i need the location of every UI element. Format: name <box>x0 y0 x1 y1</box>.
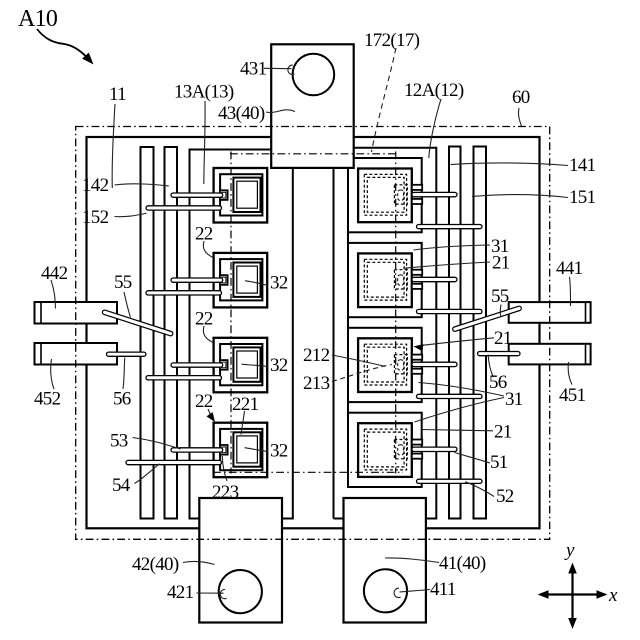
leader 452 <box>51 359 54 389</box>
axis x arrow <box>542 593 603 595</box>
chip 22 unit row3 (pad, frame, chip 221/223, gate pad) <box>214 338 268 393</box>
leader 442 <box>51 280 56 309</box>
leader 221 <box>241 411 245 435</box>
leader 431 <box>264 67 292 69</box>
wire 56 (left horizontal, 452 to outer rail) <box>107 352 146 356</box>
svg-text:54: 54 <box>112 475 131 496</box>
terminal 442 end cap line <box>40 302 42 324</box>
svg-text:213: 213 <box>303 373 330 394</box>
wire 51-type lead row4 (upper, to inner rail) <box>412 447 457 451</box>
svg-text:22: 22 <box>195 391 213 412</box>
leader 152 <box>115 213 147 217</box>
wire lead row3 gate (to inner rail) <box>171 363 223 367</box>
wire 52-type lead row3 (lower, to outer rail) <box>417 394 483 398</box>
hole 421 in terminal 42 <box>219 570 262 613</box>
svg-text:142: 142 <box>82 175 109 196</box>
wire 51-type lead row3 (upper, to inner rail) <box>412 362 457 366</box>
wire lead row3 source (to outer rail) <box>146 376 222 380</box>
svg-text:452: 452 <box>34 389 61 410</box>
svg-text:55: 55 <box>491 286 509 307</box>
figure pointer A10 squiggle arrow <box>37 29 87 58</box>
leader 451 <box>568 362 572 385</box>
sealing resin 60 outline (dash-dot frame) <box>76 127 550 540</box>
svg-text:56: 56 <box>113 389 131 410</box>
svg-text:32: 32 <box>270 355 288 376</box>
wire lead row4 gate (to inner rail) <box>171 448 223 452</box>
svg-text:22: 22 <box>195 224 213 245</box>
leader 22 row2 <box>203 241 212 257</box>
svg-text:13A(13): 13A(13) <box>174 82 234 103</box>
axis y arrow <box>571 567 573 624</box>
svg-text:y: y <box>564 540 575 561</box>
svg-text:55: 55 <box>114 272 132 293</box>
leader 52 <box>465 482 494 497</box>
semiconductor unit 21/31 row4 (seat, pad, hidden chip dashed) <box>348 413 422 487</box>
chip 22 unit row4 (pad, frame, chip 221/223, gate pad) <box>214 423 268 478</box>
conductor plate 13A(13) (left die pad plate) <box>190 150 293 519</box>
svg-text:442: 442 <box>41 263 68 284</box>
svg-text:212: 212 <box>303 345 330 366</box>
conductor strip right edge / seat spine (12A) <box>347 168 349 487</box>
wire 51-type lead row1 (upper, to inner rail) <box>412 192 457 196</box>
conductor strip (detection rail, left inner) with wire 142/55 landing <box>165 147 178 519</box>
conductor bottom cap to terminal 41 <box>334 518 344 520</box>
terminal 451 end cap line <box>585 344 587 365</box>
wire 52-type lead row4 (lower, to outer rail) <box>417 479 483 483</box>
wire 56 (right horizontal, 451 to outer rail) <box>478 352 521 356</box>
terminal 41(40) tab <box>344 498 426 623</box>
svg-text:52: 52 <box>496 486 514 507</box>
svg-text:22: 22 <box>195 309 213 330</box>
svg-text:151: 151 <box>569 187 596 208</box>
svg-text:223: 223 <box>212 482 239 503</box>
svg-text:32: 32 <box>270 441 288 462</box>
leader 53 <box>133 438 181 450</box>
wire lead row4 source (to outer rail) <box>126 460 222 464</box>
svg-text:221: 221 <box>232 394 259 415</box>
leader 151 <box>472 195 568 198</box>
leader 441 <box>570 277 571 306</box>
conductor strip (gate rail, left outer) with wire 152/56 landing <box>141 147 154 519</box>
svg-text:431: 431 <box>240 59 267 80</box>
leader 32 row4 <box>245 448 269 452</box>
svg-text:21: 21 <box>492 253 510 274</box>
leader 411 <box>400 590 431 593</box>
svg-text:A10: A10 <box>18 6 58 32</box>
semiconductor unit 21/31 row3 (seat, pad, hidden chip dashed) <box>348 328 422 402</box>
hole 411 in terminal 41 <box>364 569 407 612</box>
terminal 441 end cap line <box>585 302 587 323</box>
leader 142 <box>115 184 169 186</box>
conductor strip left edge (12A web line) <box>333 168 335 519</box>
wire lead row2 gate (to inner rail) <box>171 278 223 282</box>
svg-text:60: 60 <box>512 87 530 108</box>
leader 212 <box>332 355 385 367</box>
svg-text:172(17): 172(17) <box>364 30 420 51</box>
leader 60 <box>518 108 521 126</box>
centerline horizontal top (wiring 172(17)) <box>230 153 396 155</box>
terminal 452 end cap line <box>40 343 42 365</box>
centerline vertical right (through chips, 172(17)) <box>395 152 397 474</box>
leader 13A(13) <box>204 101 205 184</box>
terminal 43(40) tab <box>271 44 354 168</box>
leader 31 upper <box>414 245 491 250</box>
leader 55 left <box>124 292 131 318</box>
terminal 452 tab (left lower) <box>35 343 118 365</box>
svg-text:53: 53 <box>110 431 128 452</box>
svg-text:31: 31 <box>505 389 523 410</box>
leader 51 <box>455 453 491 464</box>
leader 55 right <box>499 305 502 316</box>
leader 172(17) <box>372 48 397 152</box>
leader 141 <box>451 163 569 166</box>
leader 32 row3 <box>242 364 269 366</box>
leader 12A(12) <box>429 99 441 158</box>
wire lead row1 source (to outer rail) <box>146 206 222 210</box>
leader 21 row3 with arrow <box>420 338 494 346</box>
chip 22 unit row1 (pad, frame, chip 221/223, gate pad) <box>214 168 268 223</box>
wire lead row1 gate (to inner rail) <box>171 193 223 197</box>
leader 11 <box>112 104 115 188</box>
svg-text:141: 141 <box>569 155 596 176</box>
leader 43(40) <box>266 110 295 113</box>
conductor strip (detection rail, right inner) 51 landing <box>449 147 461 519</box>
chip 22 unit row2 (pad, frame, chip 221/223, gate pad) <box>214 253 268 308</box>
semiconductor unit 21/31 row2 (seat, pad, hidden chip dashed) <box>348 243 422 317</box>
terminal 442 tab (left upper) <box>35 302 118 324</box>
svg-text:21: 21 <box>494 422 512 443</box>
wire 55 (left diagonal, 442 to inner rail) <box>102 310 172 336</box>
leader 54 <box>135 464 160 484</box>
svg-text:421: 421 <box>167 582 194 603</box>
hole 431 in terminal 43 <box>293 54 335 96</box>
conductor strip (gate rail, right outer) 52 landing <box>474 147 487 519</box>
leader 56 left <box>123 358 125 390</box>
substrate 11 (insulating substrate outline) <box>87 137 540 528</box>
centerline vertical left (through chips 22) <box>230 152 232 474</box>
svg-text:411: 411 <box>430 579 456 600</box>
semiconductor unit 21/31 row1 (seat, pad, hidden chip dashed) <box>348 158 422 232</box>
leader 421 <box>197 592 224 594</box>
leader 22 row4 with arrow <box>208 409 212 417</box>
svg-text:12A(12): 12A(12) <box>404 80 464 101</box>
terminal 42(40) tab <box>199 498 282 623</box>
leader 22 row3 <box>203 326 212 342</box>
leader 56 right <box>488 355 493 377</box>
svg-text:11: 11 <box>109 84 126 105</box>
wire 55 (right diagonal, 441 to inner rail) <box>453 306 522 331</box>
centerline horizontal bottom <box>213 471 403 473</box>
leader 223 <box>222 456 227 481</box>
svg-text:32: 32 <box>270 273 288 294</box>
terminal 451 tab (right lower) <box>509 344 591 365</box>
svg-text:51: 51 <box>490 452 508 473</box>
svg-text:451: 451 <box>559 385 586 406</box>
leader 31 fork a <box>419 383 505 397</box>
wire 51-type lead row2 (upper, to inner rail) <box>412 277 457 281</box>
wire lead row2 source (to outer rail) <box>146 291 222 295</box>
svg-text:41(40): 41(40) <box>439 553 486 574</box>
leader 31 fork b <box>415 398 505 423</box>
leader 42(40) <box>183 561 215 564</box>
svg-text:441: 441 <box>556 258 583 279</box>
svg-text:21: 21 <box>494 328 512 349</box>
leader 41(40) <box>385 558 439 563</box>
leader 21 row2 <box>404 262 490 268</box>
leader 213 <box>332 365 392 382</box>
svg-text:x: x <box>608 585 618 606</box>
svg-text:152: 152 <box>82 207 109 228</box>
svg-text:43(40): 43(40) <box>218 103 265 124</box>
svg-text:42(40): 42(40) <box>132 554 179 575</box>
wire 52-type lead row1 (lower, to outer rail) <box>417 225 483 229</box>
terminal 441 tab (right upper) <box>509 302 591 323</box>
leader 32 row2 <box>245 281 268 286</box>
leader 21 row4 <box>422 430 493 431</box>
conductor rail 12A top+right edge <box>354 148 437 519</box>
wire 52-type lead row2 (lower, to outer rail) <box>417 309 483 313</box>
